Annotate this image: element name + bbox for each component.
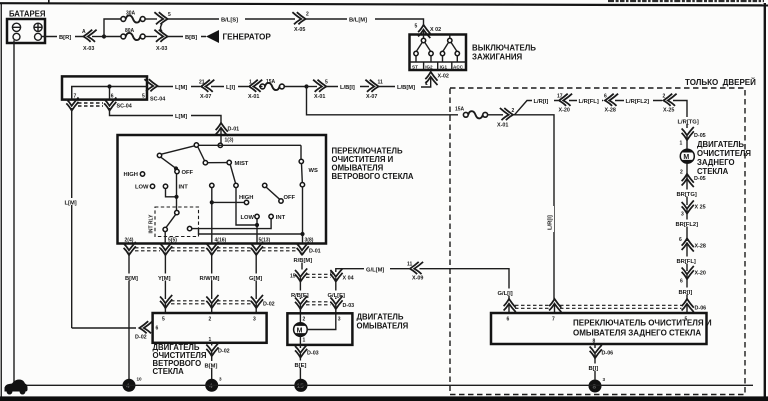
svg-text:HIGH: HIGH: [239, 195, 254, 201]
svg-text:11: 11: [407, 262, 413, 268]
svg-text:X-20: X-20: [559, 108, 570, 114]
node inside SC-04: [107, 84, 111, 88]
svg-text:3: 3: [603, 377, 606, 382]
svg-text:3: 3: [681, 212, 684, 218]
svg-text:2(4): 2(4): [125, 237, 134, 243]
wire branch up: [104, 19, 121, 37]
INT washer-side contact: [269, 214, 273, 218]
wire B/L[S]: [168, 18, 296, 20]
svg-text:G/L[M]: G/L[M]: [366, 267, 384, 273]
INT contact: [163, 184, 167, 188]
svg-text:X-07: X-07: [200, 94, 211, 100]
connector X-01 pin 2: [500, 108, 513, 120]
wire to right column: [673, 101, 687, 129]
wire L/B[M] from ignition down-left: [417, 77, 431, 87]
INT RLY top contact: [175, 210, 179, 214]
svg-text:L/R[I]: L/R[I]: [548, 215, 554, 230]
wire label B[R]: [57, 33, 75, 40]
wire to junction: [92, 36, 104, 38]
svg-text:L[M]: L[M]: [65, 201, 77, 207]
svg-text:15A: 15A: [455, 107, 465, 113]
svg-text:4(16): 4(16): [215, 237, 227, 243]
car body icon: [5, 380, 28, 395]
svg-text:L/R[FL2]: L/R[FL2]: [626, 99, 650, 105]
wire: [145, 36, 157, 38]
svg-text:7: 7: [74, 94, 77, 100]
INT RLY left contact: [163, 227, 167, 231]
connector D-02 strip above wiper motor: [160, 295, 172, 308]
svg-text:X-01: X-01: [314, 94, 325, 100]
page frame: top border: [0, 2, 768, 6]
MIST contact: [227, 160, 231, 164]
svg-text:2: 2: [306, 12, 309, 18]
pin 1(3): [218, 143, 222, 147]
wire BR[TG]: [686, 180, 688, 205]
svg-text:СТЕКЛА: СТЕКЛА: [697, 167, 729, 176]
svg-text:5: 5: [415, 24, 418, 30]
svg-text:1: 1: [249, 80, 252, 86]
top rail wire: [199, 144, 302, 146]
connector X-01 pin 1: [249, 80, 262, 92]
connector D-05 pin 2: [682, 174, 694, 187]
svg-text:2: 2: [303, 317, 306, 323]
svg-text:L/B[I]: L/B[I]: [340, 85, 355, 91]
ignition switch terminal strip ST IG2 IG1 ACC: [410, 62, 467, 70]
svg-text:B/L[M]: B/L[M]: [349, 18, 367, 24]
svg-text:8: 8: [593, 339, 596, 345]
svg-text:X-02: X-02: [438, 74, 449, 80]
svg-text:2: 2: [209, 317, 212, 323]
wire battery plus to X-03: [42, 36, 84, 38]
svg-text:ОМЫВАТЕЛЯ ЗАДНЕГО СТЕКЛА: ОМЫВАТЕЛЯ ЗАДНЕГО СТЕКЛА: [573, 329, 701, 338]
ignition switch contacts right: [440, 35, 459, 62]
wire INT RLY to INT washer contact: [192, 219, 271, 229]
svg-text:ST: ST: [412, 64, 418, 69]
connector X-04 strip: [295, 268, 307, 281]
connector X-25 pin 2: [663, 94, 676, 106]
wire diagonal up to L/R row: [513, 101, 558, 115]
wire L/R[FL]: [569, 100, 603, 102]
arm B to MIST chain: [198, 147, 205, 161]
connector D-01 above wiper switch: [216, 123, 228, 136]
svg-text:SC-04: SC-04: [150, 97, 165, 103]
connector X-02 pin 1 below ignition: [430, 70, 432, 73]
svg-text:L/B[M]: L/B[M]: [397, 85, 415, 91]
ground bus wire: [20, 384, 753, 386]
page frame: cropped text line above top border: [608, 0, 764, 2]
wire G/L[E] from X-04 pin 8 down: [335, 278, 337, 299]
svg-text:G/L[I]: G/L[I]: [498, 291, 513, 297]
connector X-28 pin 6: [605, 94, 618, 106]
svg-text:5: 5: [325, 80, 328, 86]
connector X-01 pin 5: [307, 86, 318, 88]
svg-text:15: 15: [290, 274, 296, 280]
svg-text:1: 1: [680, 141, 683, 147]
svg-text:BR[I]: BR[I]: [679, 290, 693, 296]
svg-text:L/R[FL]: L/R[FL]: [579, 99, 599, 105]
svg-text:D-02: D-02: [263, 302, 275, 308]
svg-text:4: 4: [209, 383, 213, 390]
svg-text:ОМЫВАТЕЛЯ: ОМЫВАТЕЛЯ: [357, 322, 409, 331]
washer motor M2 box: [287, 313, 352, 345]
svg-text:D-05: D-05: [694, 176, 706, 182]
wire INT to main stem: [166, 188, 177, 196]
svg-text:WS: WS: [309, 168, 318, 174]
svg-text:СТЕКЛА: СТЕКЛА: [153, 367, 185, 376]
svg-text:SC-04: SC-04: [117, 104, 132, 110]
wire L/B[M]: [379, 86, 418, 88]
rear wiper/washer switch S2 box: [491, 313, 707, 344]
INT RLY dashed box: [155, 207, 199, 237]
svg-text:4: 4: [126, 383, 130, 390]
second OFF switch contact: [263, 183, 267, 187]
connector SC-04 pins 7,6 below block: [66, 97, 78, 110]
svg-text:3: 3: [219, 377, 222, 382]
svg-text:HIGH: HIGH: [124, 172, 139, 178]
wire to X-01: [488, 114, 504, 116]
wire L/R[FL2]: [615, 100, 662, 102]
connector D-03 strip: [295, 296, 307, 309]
svg-text:6: 6: [604, 94, 607, 100]
fuse 15A rear: [463, 111, 487, 118]
fuse 15A front: [260, 83, 284, 90]
wire B[B] to generator: [168, 36, 207, 38]
wire R/B[E]: [299, 278, 301, 300]
svg-text:X-07: X-07: [366, 94, 377, 100]
svg-text:6: 6: [111, 94, 114, 100]
wire to HIGH node: [211, 188, 213, 244]
svg-text:ЗАЖИГАНИЯ: ЗАЖИГАНИЯ: [472, 53, 522, 62]
wire pin7 feed to motor pin 6: [72, 327, 136, 329]
svg-text:7: 7: [552, 317, 555, 323]
wire BR[I]: [686, 275, 688, 299]
wire G/L[M] from X-04 pin 8: [336, 269, 409, 272]
wire L[M] from pin 7 down to wiper motor feed: [71, 108, 73, 328]
svg-text:D-05: D-05: [694, 133, 706, 139]
svg-text:30A: 30A: [126, 11, 136, 17]
connector X-07 pin 21: [201, 80, 214, 92]
svg-text:B[M]: B[M]: [125, 276, 138, 282]
generator terminal triangle: [206, 30, 219, 43]
svg-text:ПЕРЕКЛЮЧАТЕЛЬ ОЧИСТИТЕЛЯ И: ПЕРЕКЛЮЧАТЕЛЬ ОЧИСТИТЕЛЯ И: [573, 319, 712, 328]
svg-text:BR[FL2]: BR[FL2]: [676, 222, 699, 228]
svg-text:ЗАДНЕГО: ЗАДНЕГО: [697, 158, 735, 167]
connector D-03 below washer motor: [295, 344, 307, 357]
svg-text:B[B]: B[B]: [185, 35, 197, 41]
svg-text:B[M]: B[M]: [205, 364, 218, 370]
svg-text:ГЕНЕРАТОР: ГЕНЕРАТОР: [223, 33, 272, 42]
svg-text:ТОЛЬКО ДВЕРЕЙ: ТОЛЬКО ДВЕРЕЙ: [685, 78, 756, 87]
wire B[M] pin 2(4) to ground: [128, 253, 130, 380]
page frame: bottom bar: [0, 396, 768, 401]
fuse 80A: [121, 33, 145, 40]
svg-text:ВЫКЛЮЧАТЕЛЬ: ВЫКЛЮЧАТЕЛЬ: [472, 44, 536, 53]
svg-text:X-28: X-28: [605, 108, 616, 114]
svg-text:D-02: D-02: [218, 349, 230, 355]
wire label L/R[I] top row: [532, 97, 554, 104]
svg-text:15: 15: [297, 383, 305, 390]
connector X-03 pin 5: [154, 12, 167, 24]
connector D-02 below motor: [206, 343, 218, 356]
svg-text:6: 6: [680, 279, 683, 285]
connector X-02 pin 5: [418, 25, 430, 38]
wire branch 80A: [104, 36, 121, 38]
connector X-05 pin 2: [292, 12, 305, 24]
connector link curve X-03: [161, 24, 163, 32]
svg-text:OFF: OFF: [284, 195, 296, 201]
svg-text:M: M: [297, 327, 303, 334]
svg-text:D-03: D-03: [343, 303, 355, 309]
ground G4: [589, 380, 602, 393]
wire relay edge to WS node: [199, 230, 303, 235]
connector X-25 pin 3: [682, 200, 694, 213]
connector D-02 pin 6 left: [139, 321, 152, 333]
svg-text:L[M]: L[M]: [175, 85, 187, 91]
arm A to OFF: [161, 157, 177, 169]
svg-text:БАТАРЕЯ: БАТАРЕЯ: [9, 10, 46, 19]
page frame: right border: [764, 3, 766, 397]
svg-text:INT RLY: INT RLY: [149, 214, 155, 234]
svg-text:X 04: X 04: [343, 276, 354, 282]
wire R/B[M]: [301, 253, 303, 270]
svg-text:X 25: X 25: [695, 205, 706, 211]
svg-text:X-01: X-01: [497, 123, 508, 129]
wire G/L[I] to rear switch pin 6: [420, 269, 510, 299]
page frame: top tick at x=49: [48, 0, 50, 3]
svg-text:10: 10: [137, 377, 143, 382]
arm MIST down: [230, 164, 235, 183]
connector X-20 pin 6 rear: [682, 266, 694, 279]
wire: [145, 18, 157, 20]
svg-text:80A: 80A: [125, 28, 135, 34]
svg-text:6: 6: [156, 326, 159, 332]
svg-text:5(13): 5(13): [259, 237, 271, 243]
svg-text:1(3): 1(3): [225, 138, 234, 144]
connector X-03: [154, 30, 167, 42]
svg-text:11: 11: [378, 80, 384, 86]
SC-04 junction block: [62, 76, 147, 99]
svg-text:1: 1: [425, 81, 428, 87]
wire battery minus down left side: [13, 40, 15, 383]
connector D-06 below rear switch: [594, 344, 596, 348]
connector SC-04 pin 5 exit: [144, 79, 157, 91]
svg-text:IG2: IG2: [425, 64, 433, 69]
svg-text:ДВИГАТЕЛЬ: ДВИГАТЕЛЬ: [697, 140, 744, 149]
wire BR[FL2]: [686, 210, 688, 242]
ground G3: [294, 379, 307, 392]
wire pin1 down from motor: [211, 343, 213, 346]
wire motor to pin 3: [307, 316, 336, 330]
svg-text:5: 5: [162, 317, 165, 323]
svg-text:L[M]: L[M]: [175, 114, 187, 120]
INT RLY blade: [166, 214, 176, 227]
svg-text:A: A: [82, 29, 86, 35]
svg-text:1: 1: [303, 338, 306, 344]
wire R/W[M]: [211, 253, 213, 300]
wiper/washer switch S1 box: [118, 135, 327, 244]
connector X-07 pin 11: [365, 80, 378, 92]
svg-text:LOW: LOW: [135, 185, 149, 191]
HIGH washer-side contact: [244, 200, 248, 204]
wire feed into dashed area: [307, 87, 459, 115]
svg-text:D-02: D-02: [135, 335, 147, 341]
contact above 4(16): [210, 183, 214, 187]
svg-text:OFF: OFF: [182, 170, 194, 176]
OFF contact: [175, 169, 179, 173]
wire L[M] from pin 6 to D-01: [110, 108, 222, 123]
wire to junction: [284, 86, 307, 88]
svg-text:M: M: [683, 154, 689, 161]
wire below rear motor: [686, 163, 688, 180]
junction node: [102, 34, 106, 38]
svg-text:6: 6: [679, 237, 682, 243]
svg-text:MIST: MIST: [235, 161, 249, 167]
svg-text:ACC: ACC: [453, 64, 464, 69]
connector X-03 pin A: [83, 30, 96, 42]
connector X-20 pin 17: [559, 94, 572, 106]
svg-text:R/B[M]: R/B[M]: [294, 258, 313, 264]
svg-text:BR[TG]: BR[TG]: [677, 192, 697, 198]
SC-04 inner divider: [72, 87, 147, 100]
wire B/L[M] to ignition switch: [306, 19, 424, 26]
svg-text:ДВИГАТЕЛЬ: ДВИГАТЕЛЬ: [357, 313, 404, 322]
svg-text:Y[M]: Y[M]: [158, 276, 171, 282]
svg-text:2: 2: [512, 108, 515, 114]
wire L/R[I] to rear switch pin 7: [513, 115, 554, 299]
wiper motor M1 box: [153, 313, 267, 343]
svg-text:X-05: X-05: [294, 27, 305, 33]
main stem OFF down to INT RLY: [176, 174, 178, 211]
connector D-01 strip below switch: [124, 242, 136, 255]
svg-text:B[I]: B[I]: [589, 366, 599, 372]
connector X-09 pin 11: [410, 262, 423, 274]
svg-text:X-28: X-28: [695, 244, 706, 250]
rear wiper motor M3: [680, 149, 694, 163]
INT RLY right contact: [187, 226, 191, 230]
wire WS down to pin 3(8): [302, 187, 304, 243]
svg-text:17: 17: [557, 94, 563, 100]
svg-text:15A: 15A: [266, 79, 276, 85]
junction node: [304, 84, 308, 88]
svg-text:LOW: LOW: [241, 215, 255, 221]
arm A to rail: [161, 146, 194, 154]
svg-text:21: 21: [199, 80, 205, 86]
washer motor symbol: [294, 323, 308, 337]
svg-text:D-03: D-03: [307, 351, 319, 357]
connector D-06 strip above rear switch: [504, 299, 516, 312]
svg-text:X-03: X-03: [83, 46, 94, 52]
WS switch: [300, 145, 302, 159]
svg-text:6: 6: [507, 317, 510, 323]
svg-text:X-09: X-09: [412, 276, 423, 282]
connector X-28 pin 6 rear: [682, 238, 694, 251]
wire to pin 5(5): [164, 232, 166, 244]
wire Y[M]: [164, 253, 166, 300]
ground G2: [205, 379, 218, 392]
svg-text:3: 3: [338, 317, 341, 323]
fuse 30A: [121, 15, 145, 22]
svg-text:D-06: D-06: [602, 351, 614, 357]
svg-text:X-01: X-01: [248, 94, 259, 100]
wire L[M] row2: [158, 86, 201, 88]
svg-text:X-20: X-20: [695, 271, 706, 277]
svg-text:ВЕТРОВОГО СТЕКЛА: ВЕТРОВОГО СТЕКЛА: [332, 172, 414, 181]
svg-text:ОЧИСТИТЕЛЯ: ОЧИСТИТЕЛЯ: [697, 149, 751, 158]
svg-text:R/W[M]: R/W[M]: [200, 276, 220, 282]
svg-text:D-06: D-06: [695, 306, 707, 312]
svg-text:2: 2: [663, 94, 666, 100]
svg-text:L/R[TG]: L/R[TG]: [678, 120, 699, 126]
wire MIST chain down to LOW node: [236, 188, 257, 226]
svg-text:X-25: X-25: [663, 108, 674, 114]
svg-text:B/L[S]: B/L[S]: [221, 18, 238, 24]
svg-text:INT: INT: [179, 184, 189, 190]
connector D-05 pin 1: [682, 127, 694, 140]
left switch pivot A: [157, 153, 161, 157]
svg-text:X-03: X-03: [156, 46, 167, 52]
wire L/B[I]: [326, 86, 369, 88]
svg-text:8: 8: [330, 271, 333, 277]
wire to fuse: [259, 86, 263, 88]
svg-text:1: 1: [209, 337, 212, 343]
svg-text:G[M]: G[M]: [249, 276, 262, 282]
svg-text:INT: INT: [276, 215, 286, 221]
svg-text:2: 2: [680, 170, 683, 176]
wire L[I]: [211, 86, 248, 88]
svg-text:D-01: D-01: [309, 249, 321, 255]
node B on rail: [194, 143, 198, 147]
wire BR[FL]: [686, 245, 688, 271]
svg-text:BR[FL]: BR[FL]: [677, 259, 696, 265]
svg-text:L[I]: L[I]: [226, 85, 235, 91]
svg-text:B[E]: B[E]: [295, 363, 307, 369]
ignition switch U2 box: [410, 35, 467, 71]
ground G1: [123, 379, 136, 392]
page frame: left border: [1, 3, 2, 397]
wire motor pin 1 down: [299, 336, 301, 348]
svg-text:B[R]: B[R]: [59, 35, 71, 41]
svg-text:5: 5: [168, 12, 171, 18]
svg-text:IG1: IG1: [440, 64, 448, 69]
svg-text:L/R[I]: L/R[I]: [534, 99, 549, 105]
svg-text:5: 5: [142, 94, 145, 100]
svg-text:X 02: X 02: [430, 27, 441, 33]
battery B1: [7, 19, 45, 43]
svg-text:3: 3: [253, 317, 256, 323]
ignition switch contacts left: [414, 35, 433, 62]
svg-text:D-01: D-01: [228, 127, 240, 133]
wire G[M]: [255, 253, 257, 300]
